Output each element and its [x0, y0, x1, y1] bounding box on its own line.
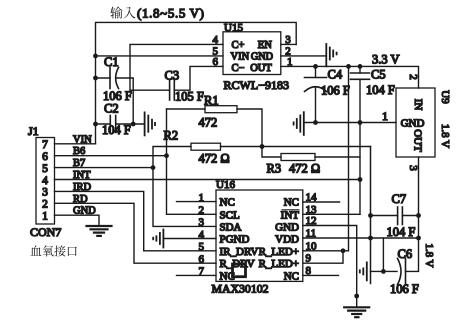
op-amp U15 box RCWL-9183	[223, 32, 281, 75]
svg-text:472 Ω: 472 Ω	[199, 152, 230, 166]
node input label 输入(1.8~5.5 V)	[110, 6, 135, 18]
wire R-node feed down ground tall bar	[370, 147, 372, 284]
capacitor C2	[109, 116, 111, 133]
wire R2 left SDA riser	[153, 147, 216, 227]
svg-text:GND: GND	[275, 221, 299, 233]
svg-text:OUT: OUT	[412, 129, 424, 152]
svg-text:5: 5	[199, 241, 205, 253]
wire U15 pin6 C- to C3 right	[174, 66, 223, 90]
ground U16 earth	[344, 307, 369, 317]
svg-text:4: 4	[213, 34, 219, 46]
svg-text:5: 5	[42, 163, 48, 175]
svg-text:7: 7	[42, 139, 48, 151]
svg-text:VIN: VIN	[231, 51, 250, 62]
wire J1 B7 row	[55, 167, 154, 169]
svg-text:B6: B6	[73, 146, 85, 157]
wire U16 pin12 GND down to earth	[303, 226, 357, 308]
wire J1 B6 row	[55, 155, 167, 157]
ground C6 sideways bars	[360, 262, 367, 280]
wire J1 VIN row	[55, 143, 96, 145]
wire U15 pin3 EN	[281, 43, 296, 45]
wire GND rail under C4 C5	[304, 122, 396, 124]
ground EN sideways	[326, 44, 336, 66]
svg-text:3.3 V: 3.3 V	[372, 53, 400, 67]
svg-text:1: 1	[382, 109, 388, 123]
capacitor C7	[397, 207, 399, 225]
wire U15 pin4 C+ to C3 left	[130, 44, 223, 90]
wire U15 pin2 GND to ground	[281, 55, 327, 57]
wire U16 pin11 VDD 1.8V rail	[303, 237, 419, 239]
svg-text:INT: INT	[73, 170, 91, 181]
svg-text:U15: U15	[224, 22, 243, 34]
wire U15 pin5 VIN to input rail	[96, 55, 224, 57]
svg-text:472 Ω: 472 Ω	[289, 162, 320, 176]
node 血氧接口 label	[30, 245, 76, 256]
svg-text:106 F: 106 F	[390, 282, 419, 296]
ground PGND sideways	[153, 230, 163, 248]
svg-text:6: 6	[199, 254, 205, 266]
svg-text:IN: IN	[412, 99, 424, 111]
svg-text:RD: RD	[73, 194, 88, 205]
svg-text:3: 3	[42, 187, 48, 199]
svg-text:1: 1	[42, 211, 48, 223]
ground GND-rail west sideways	[294, 112, 304, 135]
svg-text:C1: C1	[104, 55, 119, 69]
svg-text:CON7: CON7	[30, 225, 61, 239]
wire U16 pin13 INT	[303, 213, 360, 215]
svg-text:2: 2	[407, 74, 419, 80]
wire U16 pin9 riser	[303, 251, 343, 263]
svg-text:NC: NC	[220, 270, 235, 282]
wire R1 right	[237, 109, 262, 147]
svg-text:R_LED+: R_LED+	[259, 246, 299, 258]
svg-text:C2: C2	[104, 102, 119, 116]
wire U16 pin7 NC stub	[177, 274, 217, 276]
svg-text:SDA: SDA	[220, 221, 242, 233]
wire C2 right to ground	[116, 123, 145, 125]
wire R1 left	[167, 108, 206, 110]
svg-text:C6: C6	[398, 247, 413, 261]
wire C6 1.8V feed	[382, 238, 384, 271]
svg-text:4: 4	[42, 175, 48, 187]
svg-text:VDD: VDD	[275, 234, 299, 246]
svg-text:EN: EN	[258, 40, 272, 51]
svg-text:C3: C3	[165, 69, 180, 83]
svg-text:6: 6	[42, 151, 48, 163]
svg-text:R1: R1	[204, 94, 219, 108]
svg-text:R3: R3	[267, 162, 282, 176]
wire R3 right to INT node	[315, 157, 360, 214]
svg-text:NC: NC	[284, 270, 299, 282]
wire J1 RD row to U16 pin6	[55, 203, 217, 263]
svg-text:J1: J1	[28, 124, 39, 138]
capacitor C4 polarized	[305, 77, 327, 79]
svg-text:6: 6	[213, 56, 219, 68]
svg-text:104 F: 104 F	[387, 225, 416, 239]
svg-text:C7: C7	[392, 192, 407, 206]
U16 box MAX30102	[216, 190, 303, 281]
svg-text:C5: C5	[371, 67, 386, 81]
svg-text:INT: INT	[281, 209, 300, 221]
wire J1 INT row	[55, 179, 361, 181]
wire GND rail drop to INT node	[359, 123, 361, 158]
wire U16 pin14 NC stub	[303, 201, 340, 203]
svg-text:2: 2	[199, 205, 205, 217]
svg-text:B7: B7	[73, 158, 85, 169]
wire C1 left	[96, 77, 111, 79]
wire U16 pin1 NC stub	[177, 201, 217, 203]
svg-text:106 F: 106 F	[321, 84, 350, 98]
svg-text:VIN: VIN	[73, 134, 92, 145]
svg-text:OUT: OUT	[250, 63, 272, 74]
svg-text:R_DRV: R_DRV	[220, 258, 255, 270]
capacitor C1	[109, 68, 111, 89]
U16 exposed pad square	[233, 264, 246, 277]
svg-text:3: 3	[199, 217, 205, 229]
svg-text:U9: U9	[439, 90, 451, 104]
wire R3 left	[262, 147, 281, 158]
svg-text:104 F: 104 F	[366, 83, 395, 97]
wire C6 left	[371, 270, 398, 272]
svg-text:IR_DRV: IR_DRV	[220, 246, 259, 258]
resistor R1	[205, 106, 237, 113]
svg-text:GND: GND	[73, 206, 96, 217]
svg-text:RCWL−9183: RCWL−9183	[224, 78, 290, 92]
resistor R2	[191, 143, 221, 150]
svg-text:IRD: IRD	[73, 182, 92, 193]
svg-text:NC: NC	[220, 197, 235, 209]
svg-text:C+: C+	[232, 40, 245, 51]
svg-text:(1.8~5.5 V): (1.8~5.5 V)	[137, 6, 204, 21]
svg-text:104 F: 104 F	[102, 123, 131, 137]
wire 3.3V feed to pins 9 10 R_LED+	[303, 66, 349, 250]
wire J1 IRD row to U16 pin5	[55, 191, 217, 250]
svg-text:2: 2	[42, 199, 48, 211]
wire C1 right	[117, 78, 133, 124]
svg-text:C−: C−	[232, 63, 245, 74]
svg-text:U16: U16	[216, 179, 235, 191]
wire C2 left	[96, 123, 111, 125]
svg-text:C4: C4	[328, 67, 343, 81]
svg-text:SCL: SCL	[220, 209, 240, 221]
svg-text:R2: R2	[164, 129, 179, 143]
svg-text:472: 472	[199, 116, 218, 130]
svg-text:105 F: 105 F	[175, 90, 204, 104]
resistor R3	[281, 154, 315, 161]
ground C2 sideways	[145, 112, 155, 135]
wire C7 left	[371, 215, 398, 217]
wire U16 pin4 PGND	[163, 238, 216, 240]
connector J1 box	[36, 138, 55, 225]
svg-text:GND: GND	[251, 51, 273, 62]
wire J1 GND row	[55, 215, 100, 226]
svg-text:1.8 V: 1.8 V	[423, 243, 435, 267]
wire U16 pin8 NC stub	[303, 274, 339, 276]
capacitor C6 polarized	[398, 259, 402, 285]
svg-text:NC: NC	[284, 197, 299, 209]
wire SCL riser B6 to U16 pin2	[167, 109, 217, 214]
regulator U9 box	[396, 88, 435, 157]
wire U9 pin3 OUT column	[406, 157, 419, 271]
svg-text:MAX30102: MAX30102	[212, 282, 269, 296]
svg-text:PGND: PGND	[220, 234, 250, 246]
wire C7 right	[402, 215, 418, 217]
svg-text:3: 3	[285, 34, 291, 46]
svg-text:3: 3	[407, 165, 419, 171]
capacitor C5	[351, 72, 370, 74]
svg-text:1.8 V: 1.8 V	[439, 124, 451, 148]
svg-text:R_LED+: R_LED+	[259, 258, 299, 270]
svg-text:GND: GND	[401, 118, 425, 130]
wire input top rail	[96, 22, 297, 143]
ground J1 earth	[87, 226, 112, 236]
wire 3.3V rail to U9 IN	[281, 66, 419, 88]
wire R-node	[221, 146, 371, 148]
capacitor C3	[169, 81, 171, 101]
